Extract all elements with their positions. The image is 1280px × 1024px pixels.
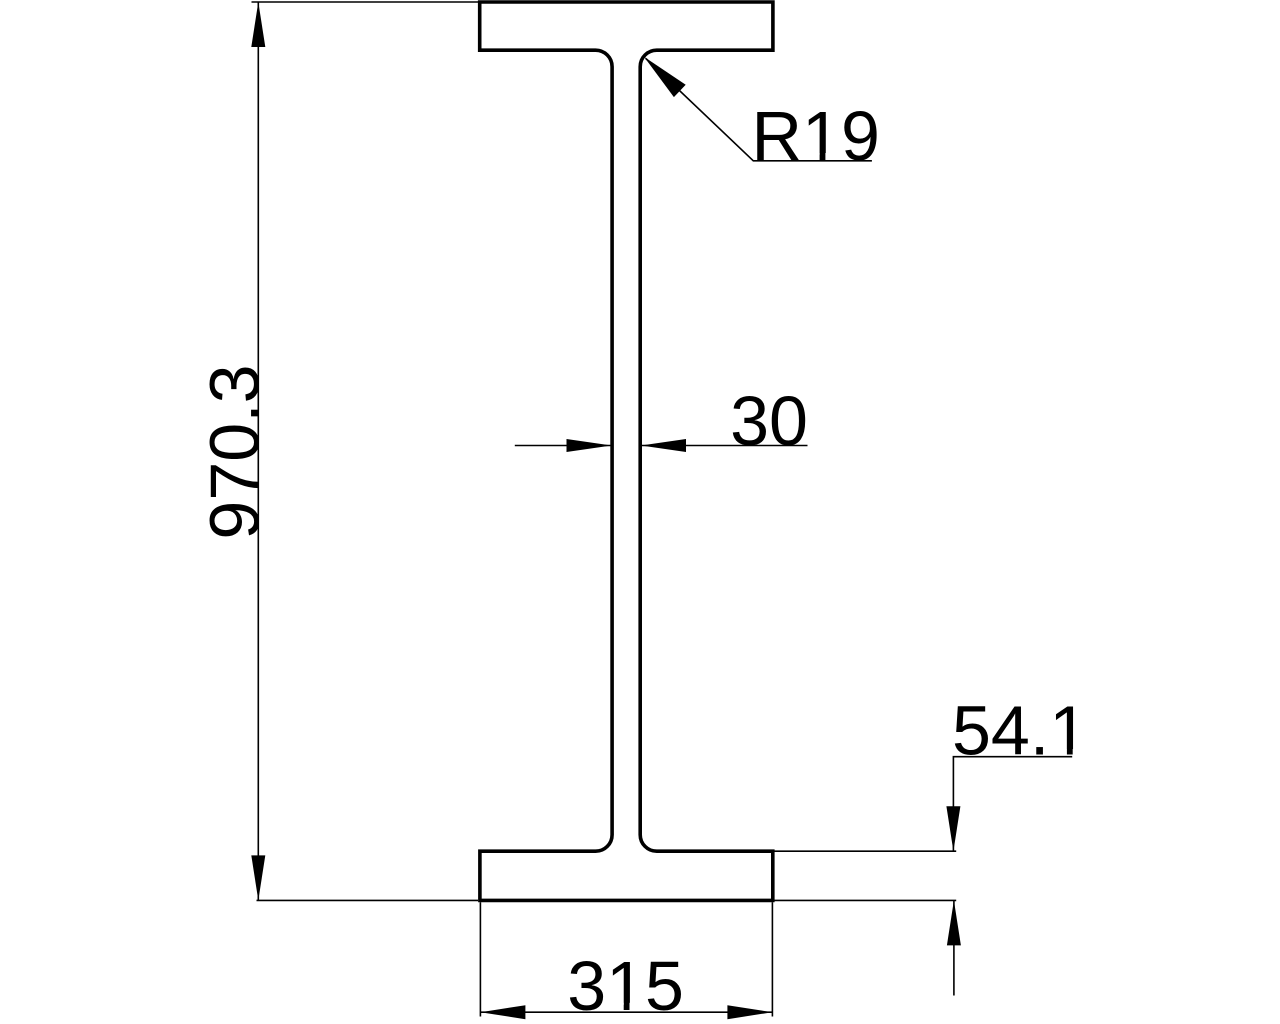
svg-text:30: 30 — [730, 382, 808, 460]
svg-text:970.3: 970.3 — [196, 364, 274, 539]
svg-text:R19: R19 — [752, 97, 880, 175]
svg-text:54.1: 54.1 — [952, 692, 1088, 770]
